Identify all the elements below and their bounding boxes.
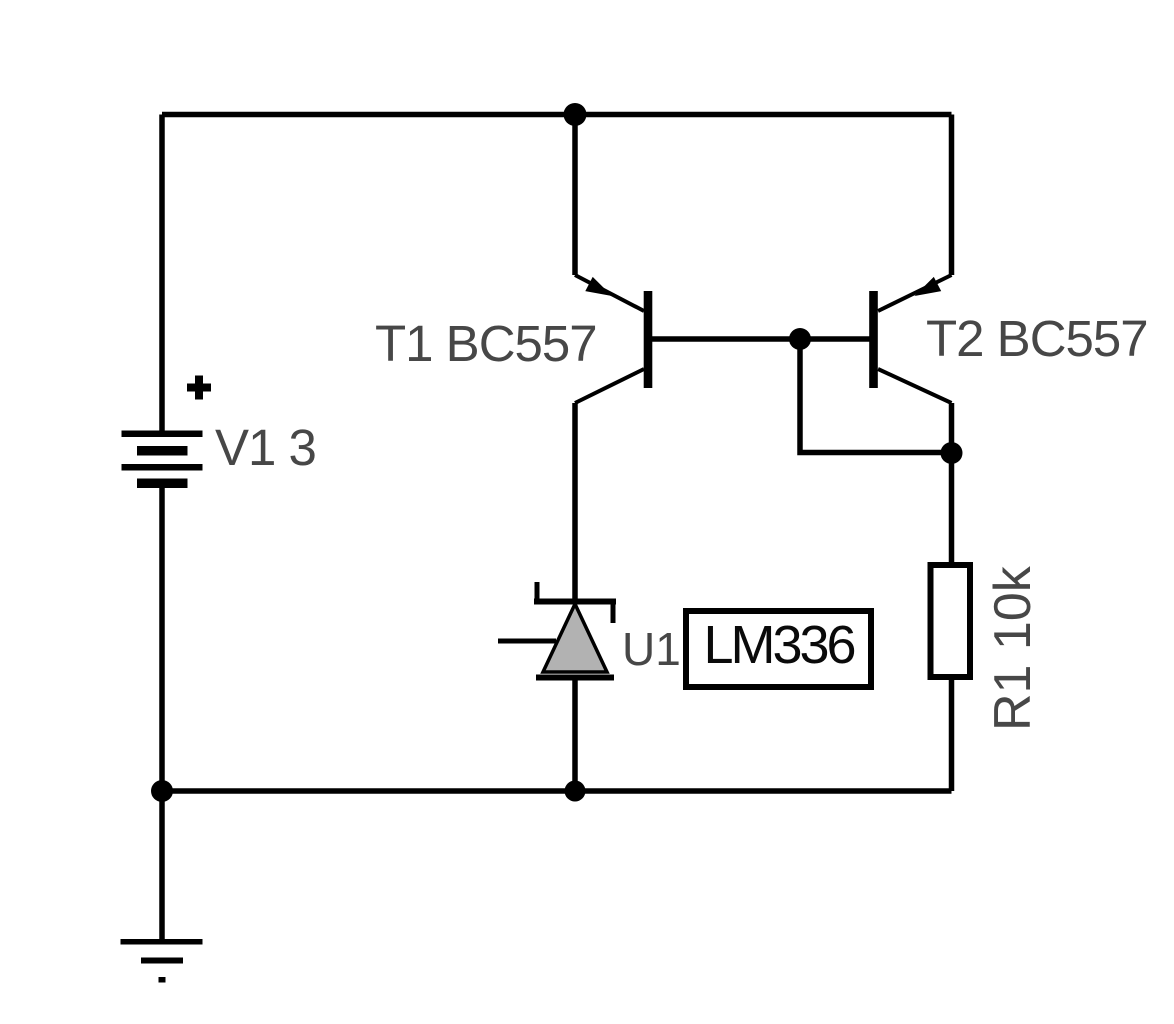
svg-text:U1: U1	[622, 623, 681, 675]
svg-text:LM336: LM336	[703, 615, 854, 675]
wire T1 base lead	[652, 336, 800, 342]
wire U1 to bottom rail	[572, 680, 578, 791]
wire bottom rail	[162, 788, 952, 794]
resistor R1	[931, 565, 971, 677]
wire T1 collector to U1	[572, 403, 578, 601]
node base junction	[789, 328, 811, 350]
svg-text:T2 BC557: T2 BC557	[926, 310, 1148, 367]
svg-text:T1 BC557: T1 BC557	[375, 315, 597, 372]
wire R1 to bottom rail	[949, 677, 955, 791]
wire left column battery top	[159, 115, 165, 434]
battery plus polarity mark	[187, 376, 211, 400]
voltage reference U1	[498, 582, 616, 678]
node bottom-left junction	[151, 780, 173, 802]
label V1 3	[215, 419, 316, 476]
wire T1 emitter drop	[572, 115, 578, 276]
svg-text:V1 3: V1 3	[215, 419, 316, 476]
node top junction	[564, 103, 587, 126]
label T2 BC557	[926, 310, 1148, 367]
wire node to R1	[949, 453, 955, 566]
wire top rail	[162, 112, 952, 118]
node collector junction	[941, 442, 963, 464]
label box LM336	[686, 611, 871, 687]
label T1 BC557	[375, 315, 597, 372]
label U1	[622, 623, 681, 675]
battery V1	[122, 431, 203, 489]
wire T2 base lead	[800, 336, 870, 342]
ground	[121, 939, 203, 983]
transistor T2	[869, 275, 951, 403]
wire base to collector tie	[800, 339, 952, 453]
svg-text:R1 10k: R1 10k	[984, 565, 1042, 731]
label R1 10k	[984, 565, 1042, 731]
node T1 column bottom junction	[565, 781, 586, 802]
transistor T1	[575, 275, 652, 403]
wire battery to bottom rail	[159, 486, 165, 791]
wire T2 collector drop	[949, 403, 955, 453]
wire T2 emitter drop	[949, 115, 955, 276]
wire to ground	[159, 791, 165, 942]
